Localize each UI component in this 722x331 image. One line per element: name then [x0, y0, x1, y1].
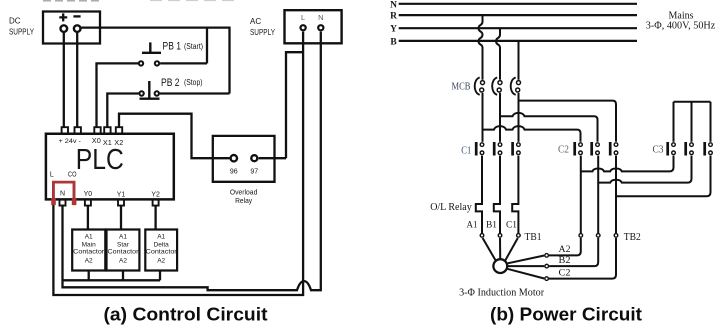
- svg-text:96: 96: [230, 168, 238, 175]
- svg-text:N: N: [60, 190, 65, 197]
- svg-text:C3: C3: [653, 145, 664, 156]
- svg-text:A1: A1: [157, 233, 165, 240]
- svg-text:TB1: TB1: [525, 232, 542, 243]
- svg-text:C2: C2: [558, 145, 569, 156]
- svg-text:C1: C1: [506, 220, 517, 230]
- svg-text:Y1: Y1: [117, 191, 126, 198]
- svg-text:PB 2: PB 2: [161, 77, 180, 89]
- svg-text:Contactor: Contactor: [108, 248, 140, 255]
- svg-text:3-Φ, 400V, 50Hz: 3-Φ, 400V, 50Hz: [646, 20, 716, 31]
- svg-text:(a) Control Circuit: (a) Control Circuit: [104, 304, 268, 325]
- svg-text:O/L Relay: O/L Relay: [430, 202, 472, 213]
- svg-text:Delta: Delta: [154, 241, 170, 248]
- svg-text:Main: Main: [82, 241, 96, 248]
- svg-text:97: 97: [250, 168, 258, 175]
- svg-text:AC: AC: [250, 17, 261, 26]
- svg-text:(b) Power Circuit: (b) Power Circuit: [490, 304, 642, 325]
- svg-text:DC: DC: [9, 17, 21, 26]
- svg-text:PB 1: PB 1: [163, 41, 182, 53]
- svg-text:Relay: Relay: [235, 196, 252, 205]
- svg-text:A2: A2: [85, 258, 93, 265]
- svg-text:B: B: [390, 37, 397, 47]
- svg-text:A2: A2: [157, 258, 165, 265]
- svg-text:A2: A2: [559, 245, 571, 255]
- svg-text:A1: A1: [467, 220, 478, 230]
- svg-text:(Start): (Start): [184, 42, 203, 51]
- svg-text:Star: Star: [117, 241, 130, 248]
- svg-text:Contactor: Contactor: [73, 248, 105, 255]
- svg-text:L: L: [50, 172, 54, 179]
- svg-text:3-Φ Induction Motor: 3-Φ Induction Motor: [459, 287, 544, 298]
- svg-text:Y0: Y0: [84, 191, 93, 198]
- svg-text:MCB: MCB: [452, 81, 471, 92]
- svg-text:(Stop): (Stop): [184, 78, 203, 87]
- svg-text:TB2: TB2: [624, 232, 641, 243]
- svg-text:C2: C2: [559, 269, 571, 279]
- svg-text:A1: A1: [119, 233, 127, 240]
- svg-text:PLC: PLC: [76, 144, 124, 176]
- svg-text:N: N: [318, 13, 323, 22]
- svg-text:N: N: [390, 0, 397, 10]
- svg-text:B2: B2: [559, 256, 571, 266]
- svg-text:R: R: [390, 12, 397, 22]
- svg-text:CO: CO: [68, 172, 77, 179]
- svg-text:Contactor: Contactor: [146, 248, 178, 255]
- svg-text:SUPPLY: SUPPLY: [250, 28, 276, 37]
- svg-text:C1: C1: [461, 145, 471, 156]
- svg-text:L: L: [301, 13, 305, 22]
- svg-text:SUPPLY: SUPPLY: [9, 28, 35, 37]
- svg-text:Y: Y: [390, 25, 397, 35]
- svg-text:A2: A2: [119, 258, 127, 265]
- svg-text:B1: B1: [486, 220, 497, 230]
- svg-text:Y2: Y2: [151, 191, 160, 198]
- svg-text:A1: A1: [85, 233, 93, 240]
